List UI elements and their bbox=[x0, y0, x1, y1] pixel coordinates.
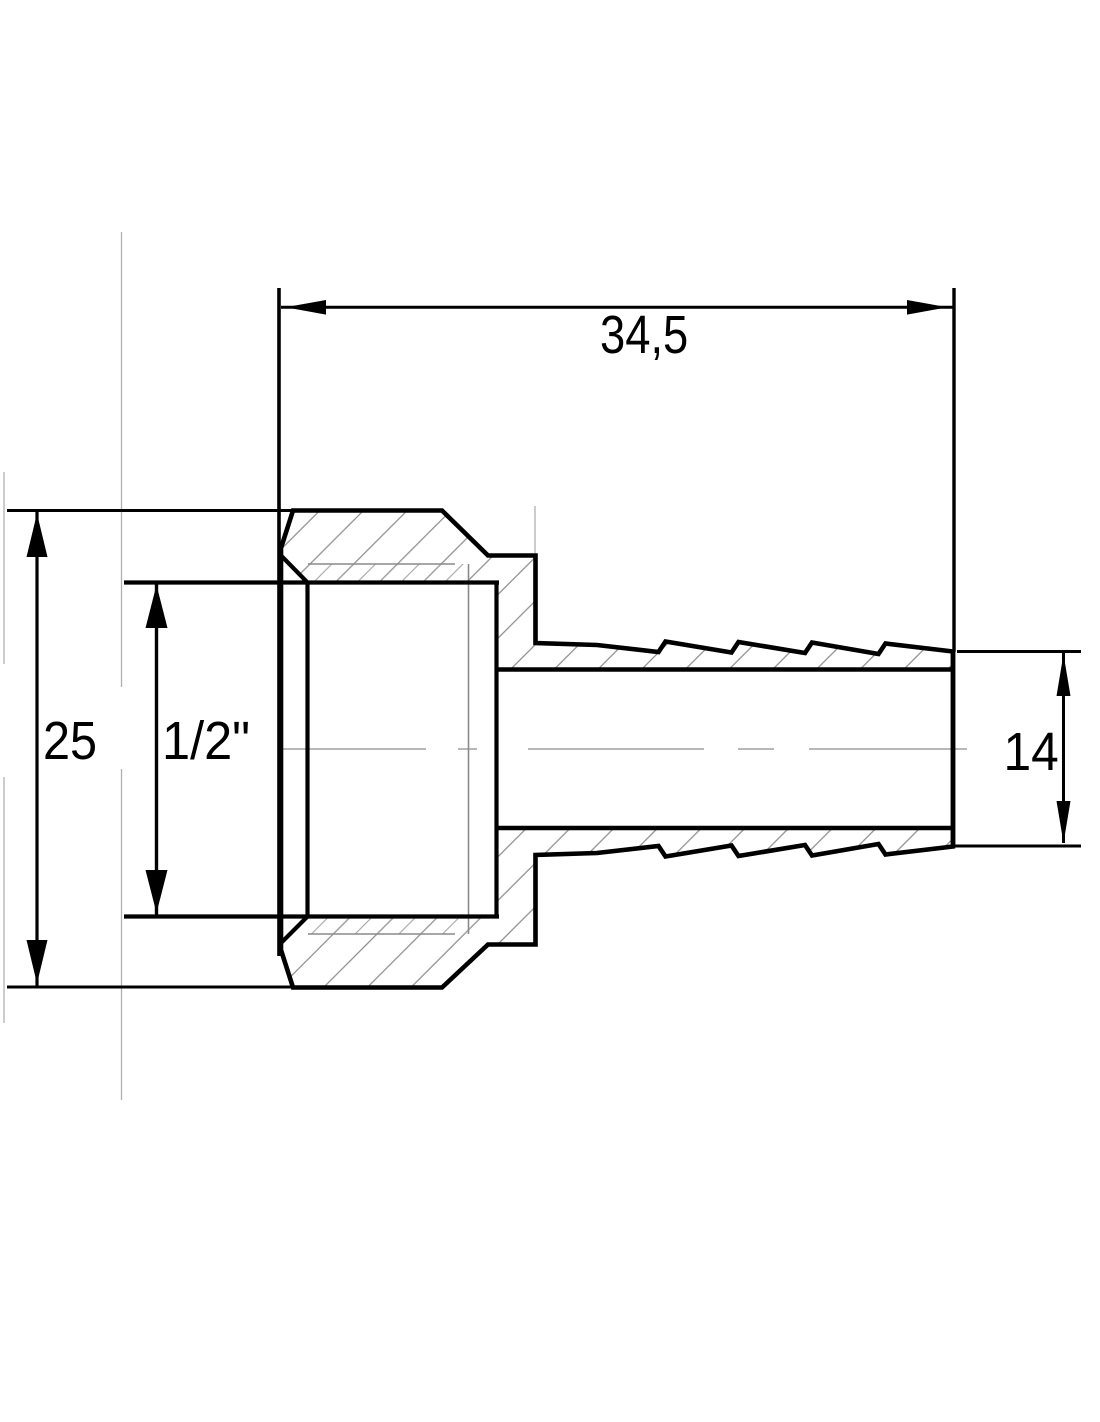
arrow right 34,5 bbox=[907, 300, 948, 315]
arrow bottom 25 bbox=[27, 940, 48, 984]
section hatch fill of fitting body bbox=[281, 511, 953, 988]
stem through-bore bbox=[497, 670, 954, 829]
svg-text:1/2": 1/2" bbox=[162, 711, 250, 771]
right extension line of 34,5 bbox=[952, 288, 955, 652]
thread crest thin lines bbox=[308, 564, 469, 934]
arrow top 14 bbox=[1057, 654, 1071, 696]
dimension line 25 bbox=[35, 511, 38, 986]
arrow bottom 1/2" bbox=[146, 870, 168, 913]
threaded bore outline bbox=[124, 556, 499, 944]
svg-text:14: 14 bbox=[1004, 721, 1059, 781]
dimension line 14 bbox=[1062, 653, 1065, 843]
dense thread-zone hatch bands bbox=[308, 564, 468, 583]
left face / extension line of 34,5 bbox=[277, 288, 281, 956]
barb end face bbox=[951, 652, 956, 847]
arrow top 25 bbox=[27, 514, 48, 558]
arrow bottom 14 bbox=[1057, 801, 1071, 843]
extension lines 25 bbox=[7, 511, 293, 988]
svg-text:25: 25 bbox=[43, 710, 97, 771]
construction line x=121 bbox=[121, 232, 123, 1100]
construction line far left bbox=[3, 472, 5, 1023]
dimension line 34,5 bbox=[281, 306, 953, 309]
dimension line 1/2" bbox=[155, 583, 158, 915]
extension lines 14 bbox=[954, 652, 1081, 847]
hex body outline with barbed stem (section) bbox=[281, 511, 953, 988]
centerline bbox=[282, 748, 967, 750]
svg-text:34,5: 34,5 bbox=[600, 304, 688, 365]
construction line above collar bbox=[534, 506, 536, 553]
arrow top 1/2" bbox=[146, 585, 168, 628]
arrow left 34,5 bbox=[286, 300, 327, 315]
